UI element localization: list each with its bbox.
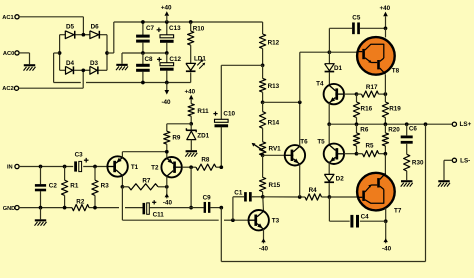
power transistor T8: [357, 37, 399, 75]
ground at AC0: [24, 64, 36, 70]
svg-text:D1: D1: [334, 65, 343, 72]
capacitor C6: [401, 124, 418, 154]
capacitor C1: [234, 189, 251, 201]
node R3 top: [93, 165, 97, 169]
resistor R3: [92, 167, 109, 208]
svg-text:R8: R8: [201, 156, 210, 163]
svg-text:T8: T8: [392, 68, 400, 75]
svg-text:+40: +40: [379, 5, 390, 12]
svg-text:C5: C5: [352, 15, 361, 22]
node C12 bottom -40 junction: [165, 81, 169, 85]
svg-text:T3: T3: [272, 218, 280, 225]
svg-text:D3: D3: [90, 60, 99, 67]
node R8 left junction: [189, 165, 193, 169]
svg-text:AC2: AC2: [2, 86, 13, 92]
svg-text:R10: R10: [193, 26, 205, 33]
svg-text:C3: C3: [75, 151, 84, 158]
svg-text:LS-: LS-: [460, 158, 470, 165]
wire ground rail: [19, 207, 142, 209]
resistor R30: [404, 154, 424, 180]
wire R10 to LD1: [190, 45, 192, 63]
resistor R2: [72, 198, 89, 210]
svg-text:C10: C10: [223, 110, 235, 117]
svg-text:R30: R30: [412, 159, 424, 166]
node C9 left junction: [189, 206, 193, 210]
resistor R17: [357, 84, 386, 97]
power +40 above T8: [379, 5, 390, 28]
power +40 above R11: [184, 88, 195, 103]
terminal AC0: [3, 51, 19, 57]
svg-text:T1: T1: [131, 164, 139, 171]
node T1 bottom R7 junction: [121, 185, 125, 189]
svg-text:+40: +40: [184, 88, 195, 95]
power +40 above C13: [161, 5, 172, 22]
svg-text:D4: D4: [66, 60, 75, 67]
node R3 bottom: [93, 206, 97, 210]
wire C5 left branch: [329, 28, 352, 52]
diode D1: [325, 52, 343, 85]
capacitor C9: [191, 195, 221, 213]
node bridge right (+): [105, 51, 109, 55]
wire R15 to T3 collector: [262, 197, 265, 212]
svg-text:R14: R14: [268, 119, 280, 126]
node R8 right box junction: [219, 165, 223, 169]
wire RV1 to R15: [262, 155, 264, 177]
node R12 bottom C10 junction: [261, 63, 265, 67]
wire feedback box: [221, 124, 425, 261]
wire T7 emitter down: [385, 208, 387, 221]
node C4 right junction: [384, 219, 388, 223]
svg-text:T4: T4: [316, 81, 324, 88]
svg-text:C9: C9: [203, 195, 212, 202]
transistor T2: [151, 157, 182, 177]
terminal LS-: [452, 158, 470, 165]
node T6 collector junction: [298, 100, 302, 104]
resistor R9: [164, 131, 181, 152]
node R10 top: [189, 20, 193, 24]
node C8 bottom: [141, 81, 145, 85]
transistor T3: [249, 210, 280, 230]
node RV1 bottom T6 base junction: [261, 153, 265, 157]
svg-text:T2: T2: [151, 165, 159, 172]
svg-text:R16: R16: [361, 105, 373, 112]
node R6 bottom R5 left junction: [355, 152, 359, 156]
node R1 top: [63, 165, 67, 169]
wire bridge plus to +40 rail: [107, 22, 114, 53]
ground below ZD1: [185, 150, 197, 156]
node C13/C12 midpoint: [165, 51, 169, 55]
ground at LS-: [438, 180, 450, 186]
svg-text:C6: C6: [409, 126, 418, 133]
wire +40 to T8 collector: [385, 28, 387, 37]
svg-text:C11: C11: [153, 211, 165, 218]
wire C1 right to R15 column: [252, 196, 263, 198]
svg-text:R12: R12: [268, 40, 280, 47]
wire to T7 base: [329, 196, 358, 198]
svg-text:AC0: AC0: [3, 51, 14, 57]
capacitor C13: [157, 22, 181, 53]
wire bridge left side: [59, 35, 61, 71]
wire +40 top rail: [114, 21, 263, 23]
wire bridge minus to -40 rail: [54, 53, 60, 83]
node feedback box junction: [424, 122, 428, 126]
resistor R4: [300, 187, 330, 200]
wire bridge bottom rail: [60, 69, 107, 71]
wire T5 collector up: [328, 124, 330, 145]
wire T2 collector down: [166, 176, 168, 187]
node C2 bottom ground junction: [39, 206, 43, 210]
svg-text:R2: R2: [76, 198, 85, 205]
transistor T6: [285, 138, 308, 165]
diode D2: [324, 174, 344, 197]
svg-text:+40: +40: [161, 5, 172, 12]
node AC1-bridge junction: [82, 33, 86, 37]
wire C5 right to +40 node: [360, 27, 386, 29]
resistor R6: [353, 124, 368, 154]
node R1 bottom: [63, 206, 67, 210]
wire T4 base to R17 node: [344, 93, 357, 95]
wire bridge top rail: [60, 34, 107, 36]
node T6 emitter R4 junction: [298, 195, 302, 199]
wire T4 emitter down: [328, 103, 330, 124]
diode D6: [90, 23, 100, 38]
node C13 top +40 arrow junction: [165, 20, 169, 24]
svg-text:RV1: RV1: [269, 146, 282, 153]
wire LS- to ground: [444, 160, 452, 180]
node T8 emitter R19 junction: [384, 92, 388, 96]
node R15 bottom C1 junction: [261, 195, 265, 199]
node T4 emitter rail junction: [327, 122, 331, 126]
wire C10 bottom to R8 junction: [220, 127, 222, 167]
wire T8 base: [329, 51, 357, 53]
wire cap midpoint rail: [122, 52, 167, 54]
wire T2 base to R8: [182, 166, 196, 168]
resistor R20: [382, 124, 400, 154]
resistor R14: [260, 102, 280, 142]
wire -40 rail: [54, 82, 191, 84]
svg-text:C1: C1: [234, 189, 243, 196]
wire output rail: [329, 123, 452, 125]
svg-text:C2: C2: [49, 182, 58, 189]
svg-text:R20: R20: [388, 126, 400, 133]
wire top rail corner to R12: [262, 22, 264, 34]
svg-text:R15: R15: [269, 182, 281, 189]
svg-text:-40: -40: [163, 200, 173, 207]
resistor R11: [188, 104, 209, 124]
wire input rail: [19, 166, 107, 168]
svg-text:LS+: LS+: [460, 121, 472, 128]
svg-text:R7: R7: [142, 177, 151, 184]
svg-text:LD1: LD1: [194, 56, 206, 63]
wire T1 emitter to T2 emitter top rail: [122, 152, 166, 159]
power transistor T7: [357, 173, 402, 215]
node R19 bottom: [384, 122, 388, 126]
svg-text:C13: C13: [169, 25, 181, 32]
svg-text:R6: R6: [360, 126, 369, 133]
node C7 top: [141, 20, 145, 24]
svg-text:D2: D2: [336, 176, 345, 183]
svg-text:GND: GND: [3, 206, 15, 212]
svg-text:D6: D6: [91, 23, 100, 30]
capacitor C8: [136, 53, 153, 83]
terminal AC2: [2, 86, 18, 92]
svg-text:R9: R9: [172, 134, 181, 141]
svg-text:C12: C12: [169, 56, 181, 63]
transistor T1: [107, 156, 138, 176]
wire AC1 to bridge: [19, 17, 83, 35]
node C1 branch junction: [231, 218, 235, 222]
wire T1 collector down: [121, 176, 123, 187]
wire C4 left branch: [329, 197, 349, 221]
svg-text:-40: -40: [382, 246, 392, 253]
svg-text:R13: R13: [268, 83, 280, 90]
node bridge left (-): [58, 51, 62, 55]
node C7/C8 midpoint: [141, 51, 145, 55]
wire C1 row to T6 emitter: [263, 196, 300, 198]
wire junction to R9: [167, 124, 191, 131]
wire R8 junction down to C9 rail: [190, 167, 192, 207]
wire C10 top: [221, 65, 262, 120]
wire midpoint rail to ground: [121, 53, 123, 64]
wire C4 right: [360, 220, 386, 222]
terminal AC1: [2, 15, 19, 21]
terminal GND: [3, 206, 19, 213]
svg-text:T5: T5: [317, 139, 325, 146]
wire T6 collector to T8 base node: [300, 52, 330, 102]
capacitor C11: [143, 200, 192, 218]
wire T5 base: [344, 153, 357, 155]
svg-text:AC1: AC1: [2, 15, 13, 21]
resistor R1: [62, 167, 79, 208]
wire C1 branch up: [233, 197, 244, 220]
power -40 below C12: [161, 83, 171, 106]
svg-text:C8: C8: [144, 56, 153, 63]
transistor T5: [317, 139, 344, 165]
capacitor C2: [35, 167, 57, 208]
resistor R13: [260, 65, 280, 102]
power -40 below T7: [382, 221, 392, 252]
capacitor C5: [352, 15, 361, 34]
node box-left C9 junction: [219, 206, 223, 210]
ground below R30: [401, 180, 413, 186]
diode D3: [90, 60, 99, 74]
svg-text:-40: -40: [259, 245, 269, 252]
led LD1: [186, 56, 206, 73]
svg-text:R1: R1: [70, 182, 79, 189]
resistor R10: [188, 22, 205, 45]
capacitor C3: [74, 151, 88, 171]
capacitor C10: [213, 110, 235, 127]
node C6 top: [405, 122, 409, 126]
resistor R15: [260, 177, 281, 197]
diode D5: [65, 23, 75, 38]
svg-text:R5: R5: [365, 142, 374, 149]
wire LD1 to -40 rail: [190, 72, 192, 82]
resistor R8: [196, 156, 221, 170]
svg-text:R11: R11: [197, 108, 209, 115]
svg-text:R4: R4: [309, 187, 318, 194]
resistor R16: [353, 94, 372, 124]
resistor R7: [122, 177, 166, 190]
svg-text:R17: R17: [366, 84, 378, 91]
wire R13 junction to T6 collector: [263, 101, 300, 103]
resistor R12: [260, 34, 280, 65]
svg-text:R3: R3: [101, 182, 110, 189]
terminal LS+: [452, 121, 471, 128]
node AC2-bridge junction: [81, 68, 85, 72]
power -40 below T2: [163, 187, 173, 207]
node R4 right D2 junction: [328, 195, 332, 199]
svg-text:T6: T6: [300, 138, 308, 145]
capacitor C4: [350, 213, 369, 227]
node T2 bottom R7 junction: [165, 185, 169, 189]
node C2 top: [39, 165, 43, 169]
power -40 below T3: [259, 229, 269, 252]
capacitor C12: [157, 53, 181, 83]
ground at input rail: [35, 208, 47, 226]
wire T6 emitter down: [299, 164, 301, 197]
wire T1 node down and right to T3 base: [122, 187, 248, 220]
wire R5 node down to T7 collector: [384, 154, 386, 176]
transistor T4: [316, 81, 344, 105]
node R11/ZD1/R9 junction: [189, 122, 193, 126]
svg-text:IN: IN: [7, 165, 13, 171]
svg-text:-40: -40: [161, 99, 171, 106]
node T8 collector junction: [384, 26, 388, 30]
node R16 bottom: [355, 122, 359, 126]
wire T5 emitter down: [328, 163, 330, 175]
svg-text:C7: C7: [146, 25, 155, 32]
resistor R19: [382, 94, 401, 124]
wire bridge right side: [106, 35, 108, 71]
node T8 base D1 junction: [328, 50, 332, 54]
svg-text:C4: C4: [361, 213, 370, 220]
wire T8 emitter down: [384, 75, 386, 95]
svg-text:T7: T7: [394, 207, 402, 214]
wire AC2 to bridge bottom node: [19, 70, 84, 88]
capacitor C7: [136, 22, 154, 53]
zener ZD1: [186, 124, 209, 150]
svg-text:D5: D5: [66, 23, 75, 30]
node T2 top R9 junction: [165, 150, 169, 154]
trimmer RV1: [252, 142, 282, 156]
terminal IN: [7, 164, 19, 170]
wire T6 collector up: [299, 102, 301, 146]
node R16 top junction: [355, 92, 359, 96]
wire T6 base: [263, 154, 285, 156]
wire AC0 to ground: [19, 53, 29, 64]
node R13/R14 junction: [261, 100, 265, 104]
ground at cap midpoint: [116, 64, 128, 70]
resistor R5: [357, 142, 386, 157]
node R20 bottom R5 right junction: [384, 152, 388, 156]
svg-text:R19: R19: [389, 105, 401, 112]
svg-text:ZD1: ZD1: [197, 133, 209, 140]
diode D4: [66, 60, 75, 74]
